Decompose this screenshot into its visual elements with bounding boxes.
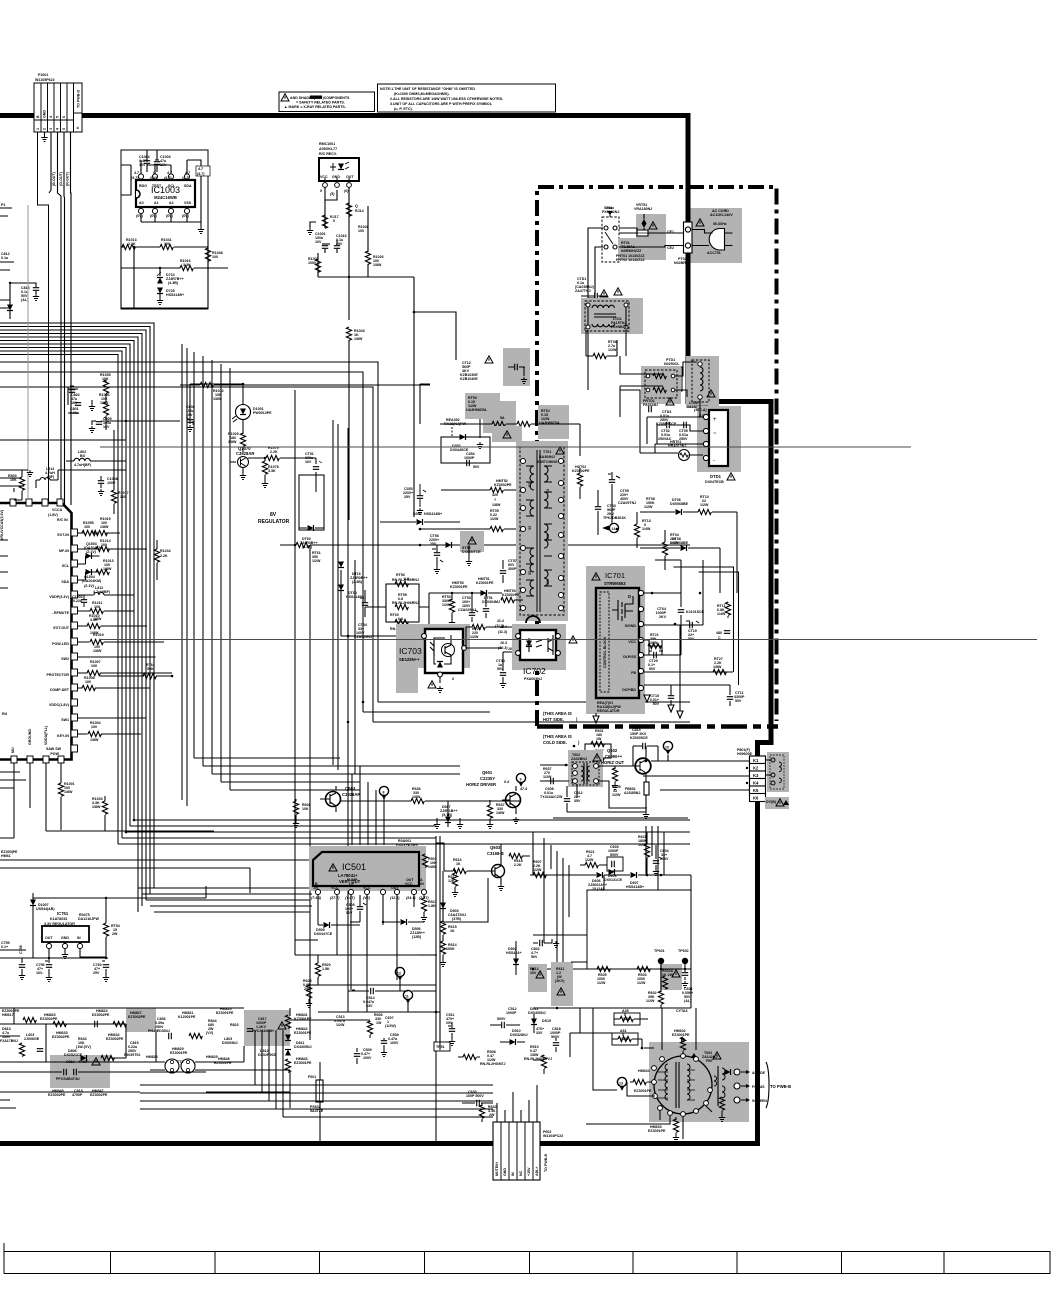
hot side bottom border	[537, 724, 778, 729]
svg-text:1/2W: 1/2W	[646, 999, 655, 1003]
wire feedback rows	[341, 593, 429, 636]
svg-text:1/2W: 1/2W	[700, 503, 709, 507]
svg-text:HSS414+: HSS414+	[506, 951, 521, 955]
svg-text:1K: 1K	[450, 929, 455, 933]
wire bottom rail	[567, 811, 646, 813]
resistor HM603	[648, 1117, 679, 1142]
svg-text:C3928AR: C3928AR	[236, 451, 254, 456]
svg-text:11: 11	[405, 995, 409, 999]
svg-text:(G-OUT): (G-OUT)	[59, 171, 63, 186]
resistor R1016	[121, 259, 228, 271]
svg-text:R/C IN: R/C IN	[57, 518, 68, 522]
svg-text:RU: RU	[2, 712, 8, 716]
svg-text:1/4W: 1/4W	[717, 612, 726, 616]
resistor R1041	[147, 238, 208, 250]
svg-text:1/8W: 1/8W	[428, 865, 437, 869]
svg-text:2.ALL RESISTORS ARE 1/8W WATT: 2.ALL RESISTORS ARE 1/8W WATT UNLESS OTH…	[390, 97, 503, 101]
ground	[44, 132, 46, 135]
svg-text:VCC: VCC	[405, 882, 413, 886]
svg-text:16V-: 16V-	[36, 971, 44, 975]
node 8	[379, 786, 388, 800]
node 11	[403, 990, 412, 1004]
svg-text:3.UNIT OF ALL CAPACITORS ARE P: 3.UNIT OF ALL CAPACITORS ARE P WITH PREF…	[390, 102, 493, 106]
svg-text:K12001PE: K12001PE	[178, 1015, 196, 1019]
resistor R602	[646, 990, 664, 1008]
flyback T602	[649, 1042, 749, 1122]
wire box top	[553, 817, 688, 819]
svg-text:HOT SIDE.: HOT SIDE.	[543, 717, 564, 722]
inductor L814	[36, 467, 58, 488]
gray RS11	[528, 964, 547, 992]
svg-text:SW2: SW2	[61, 657, 69, 661]
capacitor CTD4	[649, 406, 677, 426]
svg-text:PW0013PE: PW0013PE	[253, 411, 272, 415]
resistor R616	[444, 858, 488, 874]
svg-text:NOTE:1.THE UNIT OF RESISTANCE: NOTE:1.THE UNIT OF RESISTANCE "OHM" IS O…	[380, 87, 475, 91]
resistor R1013	[121, 238, 147, 250]
svg-text:EXT-IN: EXT-IN	[57, 533, 69, 537]
wire row2	[0, 421, 126, 440]
wire right net rails	[533, 832, 691, 1060]
wire SW1	[78, 717, 146, 719]
svg-text:GROUND: GROUND	[28, 729, 32, 745]
transistor Q1070	[230, 446, 258, 480]
svg-text:Q602: Q602	[607, 748, 618, 753]
resistor R1033	[102, 801, 107, 814]
capacitor C608	[540, 767, 563, 799]
svg-text:RA18(NJ)PW: RA18(NJ)PW	[444, 422, 467, 426]
capacitor C813	[9, 282, 39, 302]
wire bottom left rails	[0, 1008, 493, 1143]
svg-text:HORIZ DRIVER: HORIZ DRIVER	[466, 782, 496, 787]
svg-text:+15V: +15V	[527, 1167, 531, 1176]
svg-text:(0V): (0V)	[136, 214, 144, 218]
diode Q1504	[86, 569, 92, 575]
degauss coil LTD8	[686, 356, 719, 409]
svg-text:4.7: 4.7	[166, 171, 173, 175]
svg-text:~: ~	[713, 445, 717, 451]
capacitor C1502	[81, 600, 87, 603]
svg-text:KEY-IN: KEY-IN	[57, 734, 69, 738]
resistor R608	[293, 799, 311, 828]
svg-text:R1234: R1234	[160, 549, 171, 553]
capacitor CTD1	[575, 277, 622, 299]
svg-text:(11.3): (11.3)	[498, 630, 508, 634]
diode D603	[604, 869, 623, 882]
resistor RT04	[662, 530, 679, 570]
svg-text:3: 3	[49, 128, 53, 130]
svg-text:COLD SIDE.: COLD SIDE.	[543, 740, 567, 745]
pin right squares	[71, 529, 78, 752]
svg-text:EZ3002PE: EZ3002PE	[40, 1017, 58, 1021]
svg-text:(R-OUT): (R-OUT)	[66, 171, 70, 186]
svg-text:US544(AB): US544(AB)	[36, 907, 55, 911]
svg-text:D: D	[628, 594, 631, 599]
resistor A35	[614, 1009, 648, 1025]
capacitor CT44	[496, 647, 518, 688]
wire thick bottom rail	[0, 1141, 760, 1146]
pin labels	[46, 533, 70, 756]
resistor RT20	[466, 619, 516, 648]
diode D725	[157, 288, 184, 305]
resistor HD702	[572, 465, 590, 499]
svg-text:(2.1V): (2.1V)	[86, 550, 97, 554]
svg-text:25V: 25V	[404, 495, 411, 499]
svg-text:)COMPONENTS: )COMPONENTS	[323, 96, 351, 100]
svg-text:(VV): (VV)	[206, 1031, 214, 1035]
svg-text:1/8W: 1/8W	[90, 738, 99, 742]
svg-text:OUT: OUT	[346, 175, 354, 179]
svg-text:100V: 100V	[363, 1056, 372, 1060]
svg-text:SCREEN: SCREEN	[752, 1099, 767, 1103]
svg-text:(0V): (0V)	[150, 176, 158, 180]
svg-text:100V: 100V	[390, 1041, 399, 1045]
svg-text:-: -	[713, 458, 715, 464]
svg-text:0: 0	[333, 219, 335, 223]
svg-text:(4.3B): (4.3B)	[168, 281, 179, 285]
svg-text:EZ3002PE: EZ3002PE	[106, 1037, 124, 1041]
svg-text:VDDC(1.8V): VDDC(1.8V)	[49, 703, 70, 707]
resistor R1010	[87, 623, 100, 628]
svg-text:(37B): (37B)	[452, 917, 462, 921]
wire vcc	[325, 187, 337, 200]
capacitor C353	[403, 484, 426, 515]
svg-text:DX044?CE: DX044?CE	[314, 932, 333, 936]
inductor L802	[66, 450, 126, 467]
svg-text:R0A001: R0A001	[398, 839, 411, 843]
svg-text:TO PWB-B: TO PWB-B	[770, 1084, 791, 1089]
svg-text:2J006GE: 2J006GE	[24, 1037, 40, 1041]
svg-text:100: 100	[358, 229, 364, 233]
svg-text:100: 100	[94, 605, 100, 609]
svg-text:COMP-DET: COMP-DET	[50, 688, 70, 692]
svg-text:SE125N++: SE125N++	[399, 657, 420, 662]
resistor R510	[524, 1045, 552, 1074]
svg-text:ACC751: ACC751	[707, 251, 721, 255]
svg-text:Q: Q	[355, 204, 358, 208]
svg-text:4.7uH(BF): 4.7uH(BF)	[74, 463, 92, 467]
AC cord area	[691, 208, 743, 263]
svg-text:5: 5	[56, 116, 60, 118]
svg-text:306: 306	[546, 579, 550, 585]
svg-text:12: 12	[397, 972, 401, 976]
resistor HMT52	[441, 479, 523, 507]
wire EXT-OUT	[78, 625, 148, 627]
capacitor CT64	[656, 607, 705, 619]
wire 9v feed	[26, 886, 206, 958]
pin bottom squares	[11, 756, 64, 763]
wire bus A4 into vert out	[138, 888, 312, 912]
svg-text:A2: A2	[169, 201, 174, 205]
diode DT51	[482, 593, 500, 618]
svg-text:100: 100	[212, 255, 218, 259]
resistor R607b	[530, 860, 590, 878]
svg-text:EZ3001PE: EZ3001PE	[672, 1033, 690, 1037]
capacitor CT05 main	[608, 472, 636, 530]
svg-text:2.2K: 2.2K	[160, 554, 168, 558]
svg-text:CE2: CE2	[667, 246, 674, 250]
transistor Q603	[492, 865, 505, 878]
wire MF-IN + R1214	[78, 548, 148, 550]
svg-text:(10.3): (10.3)	[498, 646, 508, 650]
svg-text:33: 33	[546, 489, 550, 493]
capacitor C1016	[334, 234, 347, 253]
resistor RT64	[143, 673, 156, 678]
fuse F601	[308, 1075, 324, 1113]
svg-text:K2: K2	[753, 766, 759, 771]
svg-text:REGULATOR: REGULATOR	[597, 709, 620, 713]
svg-text:500V: 500V	[497, 1017, 506, 1021]
svg-text:Q603: Q603	[345, 786, 356, 791]
wire rmc out	[318, 247, 414, 320]
value box top right	[196, 166, 210, 176]
resistor R1001	[58, 783, 63, 796]
resistor RT61	[280, 542, 690, 563]
svg-text:(2.4B): (2.4B)	[352, 580, 363, 584]
pins top	[138, 174, 189, 214]
capacitor C819	[630, 728, 658, 766]
svg-text:(Y.4T): (Y.4T)	[345, 896, 355, 900]
svg-text:RN-RL2HGM7J: RN-RL2HGM7J	[480, 1062, 506, 1066]
svg-text:1000P: 1000P	[464, 456, 475, 460]
svg-text:1W: 1W	[376, 1021, 382, 1025]
diode D350	[380, 512, 460, 525]
svg-text:HM61: HM61	[1, 854, 11, 858]
svg-text:10K: 10K	[10, 478, 17, 482]
svg-text:BA309NJ: BA309NJ	[539, 455, 555, 459]
svg-text:B: B	[36, 115, 40, 118]
resistor A61	[612, 1029, 643, 1049]
svg-text:OLP/SS: OLP/SS	[623, 655, 637, 659]
svg-text:50V: 50V	[649, 667, 656, 671]
wire base feed	[540, 765, 647, 808]
svg-text:EXT-OUT: EXT-OUT	[53, 626, 69, 630]
svg-text:UP: UP	[349, 882, 355, 886]
diode DT16	[338, 562, 368, 585]
svg-text:(4.7): (4.7)	[131, 176, 139, 180]
svg-text:5A4T2E: 5A4T2E	[310, 1109, 324, 1113]
resistor R1004	[88, 731, 101, 736]
svg-text:1/8W: 1/8W	[92, 805, 101, 809]
svg-text:(0V): (0V)	[150, 214, 158, 218]
windings right	[544, 466, 548, 482]
svg-text:A05OKL77: A05OKL77	[319, 147, 337, 151]
posistor PRTD1	[641, 366, 681, 407]
diode D510	[500, 1029, 528, 1045]
svg-text:10.3: 10.3	[500, 641, 507, 645]
resistor R1211	[90, 608, 103, 613]
IC1001 microcontroller	[0, 503, 72, 760]
svg-text:GND: GND	[43, 110, 47, 118]
svg-text:FOCUS: FOCUS	[752, 1085, 765, 1089]
resistor R501	[422, 854, 437, 869]
svg-text:13: 13	[619, 1082, 623, 1086]
AC plug ACC751	[709, 229, 724, 251]
wire switch feed	[588, 228, 683, 302]
svg-text:KZ3001PE: KZ3001PE	[476, 581, 494, 585]
wire RFMUTE	[78, 610, 135, 612]
svg-text:1/2W: 1/2W	[336, 1023, 345, 1027]
wire bus A1	[0, 323, 154, 912]
svg-text:TP602: TP602	[678, 949, 689, 953]
wire long cross 12v	[100, 639, 1037, 641]
connector P602	[493, 1122, 540, 1180]
svg-text:100: 100	[84, 525, 90, 529]
svg-text:PROTECTOR: PROTECTOR	[47, 673, 70, 677]
svg-text:50V: 50V	[346, 911, 353, 915]
svg-text:TP601: TP601	[654, 949, 665, 953]
wire box bottom	[121, 247, 208, 309]
capacitor C514	[355, 988, 402, 1008]
svg-text:VCC: VCC	[320, 175, 328, 179]
capacitor C512	[490, 1007, 520, 1028]
wire c805 row	[106, 420, 180, 422]
resistor network RT58	[365, 573, 429, 631]
svg-text:VRL/VCCA5(3.3V): VRL/VCCA5(3.3V)	[0, 509, 4, 540]
svg-text:DX02R5CE: DX02R5CE	[258, 1053, 277, 1057]
svg-text:PFCSUB4T3U: PFCSUB4T3U	[56, 1077, 80, 1081]
resistor RT06	[586, 340, 617, 359]
node 9	[516, 773, 525, 787]
svg-text:0.4: 0.4	[504, 780, 509, 784]
svg-text:(B-OUT): (B-OUT)	[52, 171, 56, 186]
svg-text:PXA003NJ: PXA003NJ	[524, 677, 542, 681]
wires pins	[141, 214, 187, 222]
svg-text:R/C RECV.: R/C RECV.	[319, 152, 337, 156]
box TP51	[434, 1042, 450, 1051]
wire mid verticals extra	[295, 384, 664, 1012]
svg-text:CONTROL BLOCK: CONTROL BLOCK	[603, 636, 607, 668]
transformer T601	[568, 750, 603, 787]
svg-text:DX0304MJ: DX0304MJ	[482, 600, 500, 604]
resistor R1028	[358, 225, 369, 233]
inductor L812	[94, 593, 104, 596]
svg-text:ABL+: ABL+	[535, 1167, 539, 1177]
svg-text:DY(B): DY(B)	[766, 800, 777, 804]
svg-text:1/2W: 1/2W	[612, 793, 621, 797]
wire bus A3 long horizontals lower	[118, 820, 690, 844]
wire fbt feeds	[586, 1008, 712, 1139]
svg-text:10V: 10V	[315, 240, 322, 244]
capacitor C756	[36, 958, 52, 982]
resistor RJ17	[322, 200, 338, 228]
svg-text:9: 9	[520, 778, 522, 782]
svg-text:3.3K: 3.3K	[268, 469, 276, 473]
wire snubber	[440, 410, 580, 456]
svg-text:F0XNB7E: F0XNB7E	[611, 325, 628, 329]
note box units	[378, 84, 556, 112]
resistor R1214	[96, 546, 109, 551]
svg-text:VCC: VCC	[628, 640, 636, 644]
resistor R632	[479, 1103, 496, 1122]
svg-text:PHT02 10140Z2Z: PHT02 10140Z2Z	[616, 258, 645, 262]
diode D1xx	[9, 283, 11, 305]
capacitor C604	[653, 845, 669, 876]
svg-text:EZ3002PE: EZ3002PE	[52, 1035, 70, 1039]
svg-text:SCL: SCL	[168, 184, 176, 188]
capacitor CT15	[650, 694, 674, 712]
svg-text:SAW SW: SAW SW	[46, 747, 62, 751]
svg-text:4.7uH(BF): 4.7uH(BF)	[93, 590, 111, 594]
svg-text:IC702: IC702	[523, 666, 546, 676]
wire bus B verticals	[182, 344, 230, 806]
transistor Q602	[601, 746, 651, 782]
resistor R1029	[228, 432, 246, 452]
svg-text:GND: GND	[503, 1168, 507, 1176]
internal pin labels	[622, 624, 637, 692]
svg-text:4: 4	[56, 128, 60, 130]
transistor inside	[442, 644, 455, 657]
wire ocp	[671, 625, 730, 713]
svg-text:SDA: SDA	[184, 184, 192, 188]
wire G-OUT	[49, 132, 51, 193]
resistor R604	[660, 964, 682, 990]
capacitor C758	[19, 945, 25, 979]
capacitor C760	[93, 961, 109, 982]
svg-text:RMC1001: RMC1001	[319, 142, 335, 146]
capacitor C601	[682, 969, 693, 1003]
svg-text:K1AT8033: K1AT8033	[50, 917, 67, 921]
svg-text:UA3H98Z5A: UA3H98Z5A	[466, 408, 487, 412]
svg-text:EZ3002PE: EZ3002PE	[90, 1093, 108, 1097]
svg-text:(u, P, ETC).: (u, P, ETC).	[394, 107, 413, 111]
svg-text:POW-LED: POW-LED	[52, 642, 69, 646]
diode D607	[626, 872, 644, 889]
resistor R1043	[346, 327, 364, 520]
svg-text:1/8W: 1/8W	[93, 649, 102, 653]
svg-text:S/GND: S/GND	[625, 624, 637, 628]
wire fb	[644, 567, 739, 685]
wire B-OUT	[38, 132, 49, 505]
svg-text:PH-BED354J: PH-BED354J	[148, 1029, 170, 1033]
ground	[91, 400, 93, 404]
diode D1001 LED	[190, 383, 272, 434]
svg-text:(2KV): (2KV)	[555, 979, 565, 983]
connector FT02	[667, 222, 692, 265]
svg-text:ZA47TNJ: ZA47TNJ	[575, 289, 591, 293]
svg-text:HSS414B+: HSS414B+	[626, 885, 644, 889]
svg-text:KZ3002PE: KZ3002PE	[494, 483, 512, 487]
capacitor C509	[354, 1048, 372, 1064]
svg-text:TY424A/CZW: TY424A/CZW	[540, 795, 563, 799]
diode DS15	[536, 1019, 551, 1035]
svg-text:(DA204KM): (DA204KM)	[82, 579, 102, 583]
svg-text:C6090++: C6090++	[605, 754, 623, 759]
svg-text:K6: K6	[753, 796, 759, 801]
svg-text:100: 100	[91, 725, 97, 729]
svg-text:VDDA(PLL): VDDA(PLL)	[44, 725, 48, 745]
svg-text:(THIS AREA IS: (THIS AREA IS	[543, 734, 572, 739]
svg-text:(4.7): (4.7)	[197, 172, 205, 176]
svg-text:1/2W: 1/2W	[312, 559, 321, 563]
svg-text:Q601: Q601	[482, 770, 493, 775]
diode D724	[157, 268, 184, 285]
fuse RT01	[616, 230, 668, 262]
svg-text:D350: D350	[413, 512, 422, 516]
svg-text:(0V): (0V)	[182, 214, 190, 218]
wire POW-LED	[78, 641, 165, 643]
capacitor C508	[381, 1033, 399, 1057]
svg-text:C2235Y: C2235Y	[480, 776, 495, 781]
svg-text:R823: R823	[230, 1023, 239, 1027]
box 8v reg	[299, 475, 324, 530]
node 12	[395, 967, 404, 981]
wire long cross 8v	[100, 446, 911, 448]
svg-text:HM604: HM604	[638, 1069, 650, 1073]
diode HMT50	[429, 577, 502, 596]
wire bus B turns	[194, 758, 460, 790]
wire gray v1	[27, 205, 29, 500]
